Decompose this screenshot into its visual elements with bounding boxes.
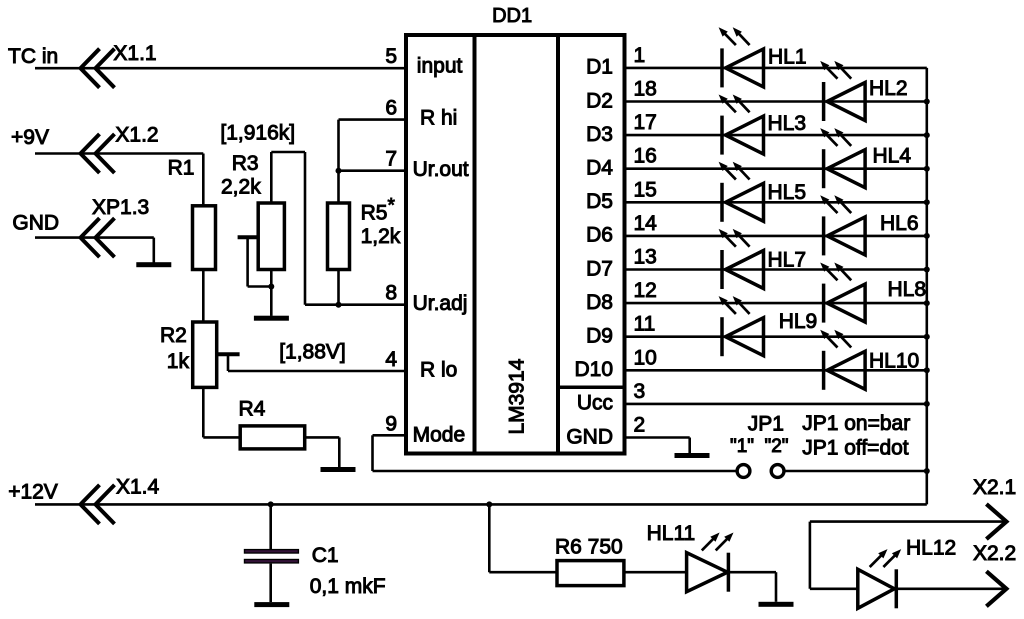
svg-text:HL7: HL7 [768,249,807,272]
svg-text:D8: D8 [586,291,613,314]
svg-text:D4: D4 [586,157,613,180]
svg-text:R5*: R5* [361,195,396,224]
svg-text:7: 7 [385,148,397,171]
svg-text:1,2k: 1,2k [361,225,401,248]
svg-text:D2: D2 [586,89,613,112]
svg-text:C1: C1 [312,544,339,567]
svg-text:R1: R1 [168,156,195,179]
svg-text:JP1 off=dot: JP1 off=dot [802,436,909,459]
svg-text:D7: D7 [586,257,613,280]
svg-text:D5: D5 [586,190,613,213]
svg-text:XP1.3: XP1.3 [92,196,149,219]
svg-text:X2.1: X2.1 [973,476,1016,499]
svg-text:[1,916k]: [1,916k] [220,121,295,144]
svg-text:Ur.adj: Ur.adj [413,292,468,315]
svg-text:Ur.out: Ur.out [413,158,469,181]
svg-text:HL3: HL3 [768,112,807,135]
svg-text:GND: GND [12,211,59,234]
svg-text:GND: GND [566,425,613,448]
svg-text:8: 8 [385,282,397,305]
svg-text:HL9: HL9 [779,310,818,333]
svg-text:R6 750: R6 750 [555,536,623,559]
svg-text:0,1 mkF: 0,1 mkF [310,575,386,598]
svg-text:HL11: HL11 [647,522,696,545]
svg-text:11: 11 [634,313,656,336]
svg-text:15: 15 [634,178,657,201]
svg-text:R2: R2 [160,324,187,347]
svg-text:HL4: HL4 [873,145,912,168]
svg-text:HL8: HL8 [888,278,927,301]
svg-text:HL6: HL6 [880,212,919,235]
svg-text:1: 1 [634,44,646,67]
svg-text:3: 3 [634,380,646,403]
svg-text:13: 13 [634,246,657,269]
svg-text:R lo: R lo [420,358,457,381]
svg-text:X1.4: X1.4 [116,475,160,498]
svg-text:LM3914: LM3914 [506,358,529,434]
svg-text:R4: R4 [239,398,266,421]
svg-text:12: 12 [634,279,657,302]
svg-text:JP1 on=bar: JP1 on=bar [802,412,910,435]
svg-text:D3: D3 [586,123,613,146]
svg-text:HL10: HL10 [869,350,919,373]
svg-text:JP1: JP1 [748,413,784,436]
svg-text:5: 5 [385,45,397,68]
svg-text:HL1: HL1 [768,46,807,69]
svg-text:DD1: DD1 [492,5,532,27]
svg-text:1k: 1k [167,350,190,373]
svg-text:[1,88V]: [1,88V] [279,341,346,364]
svg-text:R3: R3 [232,152,259,175]
svg-text:17: 17 [634,111,657,134]
svg-text:"1": "1" [730,436,754,457]
svg-text:X1.1: X1.1 [113,42,156,65]
svg-text:"2": "2" [765,436,789,457]
svg-text:16: 16 [634,145,657,168]
svg-text:Ucc: Ucc [577,392,613,415]
svg-text:+12V: +12V [8,481,58,504]
svg-text:14: 14 [634,212,658,235]
svg-text:10: 10 [634,346,657,369]
svg-text:HL5: HL5 [768,181,807,204]
svg-text:D10: D10 [574,358,613,381]
svg-text:+9V: +9V [11,126,49,149]
svg-text:2,2k: 2,2k [221,176,261,199]
svg-text:X2.2: X2.2 [973,542,1016,565]
svg-text:HL2: HL2 [869,77,908,100]
svg-text:X1.2: X1.2 [115,123,158,146]
svg-text:9: 9 [385,412,397,435]
svg-text:2: 2 [634,414,646,437]
svg-text:6: 6 [385,97,397,120]
svg-text:Mode: Mode [413,423,466,446]
svg-text:4: 4 [385,348,397,371]
svg-text:D1: D1 [586,56,613,79]
svg-text:TC in: TC in [8,45,58,68]
svg-text:input: input [417,55,463,78]
svg-text:18: 18 [634,78,657,101]
svg-text:D9: D9 [586,325,613,348]
svg-text:R hi: R hi [420,107,457,130]
svg-text:D6: D6 [586,224,613,247]
svg-text:HL12: HL12 [906,537,956,560]
